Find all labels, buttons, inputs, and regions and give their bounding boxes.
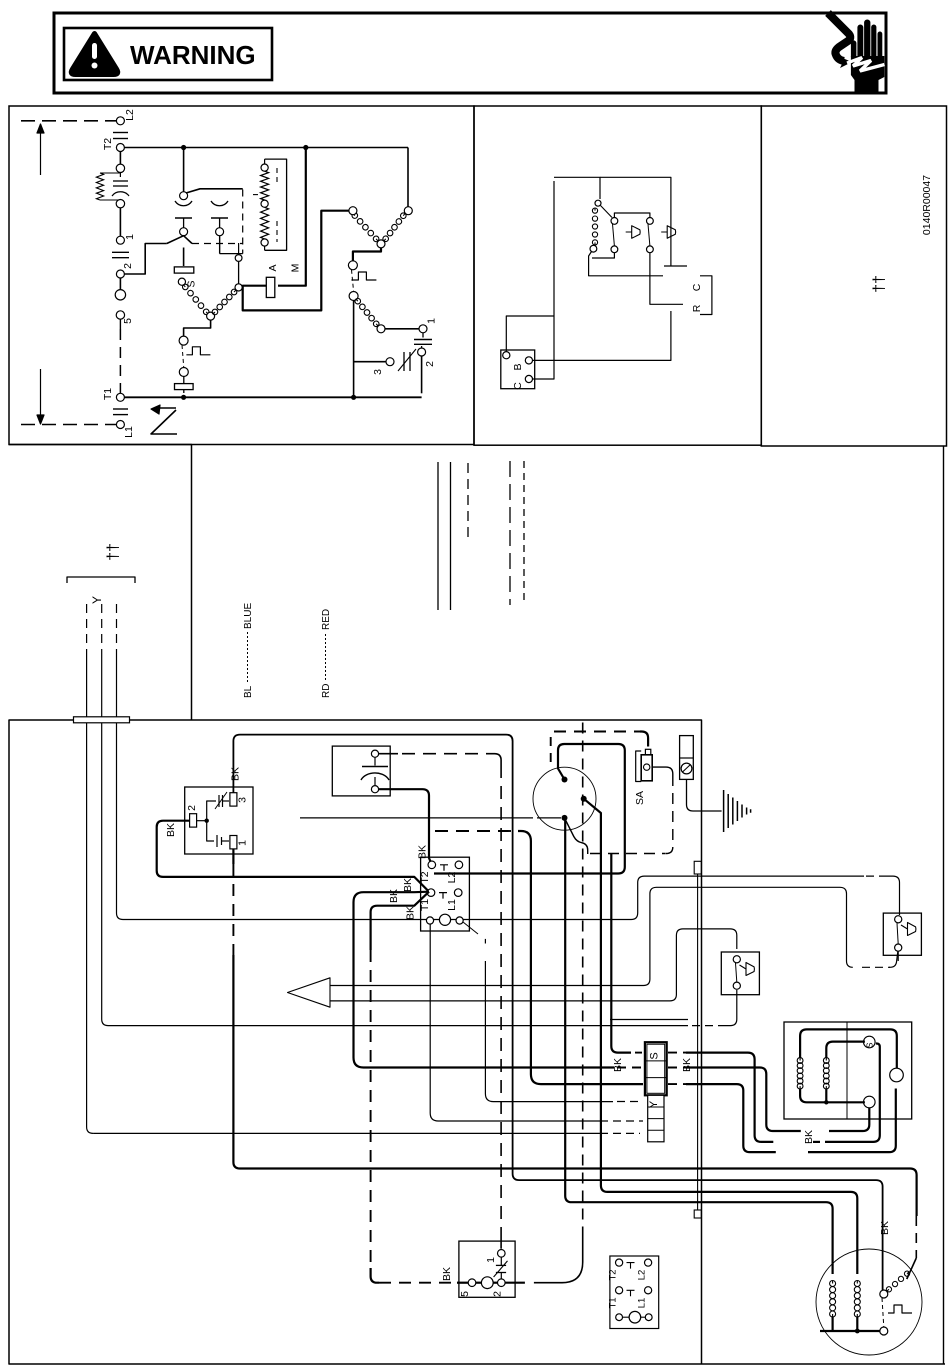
plug feed from rotary dashed vertical bbox=[582, 723, 584, 1237]
L2 dimension arrow up bbox=[37, 124, 44, 175]
pigtail terminal L2 bbox=[645, 1259, 652, 1266]
compressor spiral feed dashed bbox=[915, 1216, 917, 1258]
T2 dashed branch bbox=[435, 830, 518, 832]
contact top right bbox=[647, 218, 654, 225]
heat anticipator coil bbox=[592, 208, 597, 245]
rail terminal 2 to plug circles bbox=[119, 278, 121, 290]
contact arm to bar bbox=[186, 189, 243, 193]
svg-text:5: 5 bbox=[459, 1291, 471, 1297]
svg-text:1: 1 bbox=[237, 840, 249, 846]
pigtail block box bbox=[610, 1256, 659, 1329]
legend line solid 2 bbox=[450, 462, 452, 610]
Y wire 2 dashed bbox=[101, 604, 103, 658]
capacitor plates bbox=[374, 757, 376, 765]
plug center terminal bbox=[481, 1277, 493, 1289]
svg-text:BK: BK bbox=[405, 906, 417, 920]
terminal T1 bbox=[116, 393, 124, 401]
svg-text:T1: T1 bbox=[608, 1297, 619, 1308]
svg-text:BK: BK bbox=[402, 878, 414, 892]
relay terminal 3 wire up to switch feed bbox=[233, 735, 882, 1290]
line-break flash symbol bbox=[151, 408, 177, 434]
relay terminal 2 bbox=[190, 814, 197, 827]
svg-text:SA: SA bbox=[634, 791, 646, 805]
S terminal rect bbox=[174, 267, 194, 273]
electric shock hand icon bbox=[828, 13, 885, 92]
row3 dash at strip right bbox=[668, 1083, 686, 1085]
svg-text:S: S bbox=[865, 1042, 875, 1048]
start terminal 2 bbox=[418, 348, 426, 356]
S branch vertex bbox=[207, 312, 215, 320]
terminal L2 bbox=[116, 117, 124, 125]
contact gap 1-2 bbox=[112, 251, 129, 253]
svg-text:RED: RED bbox=[321, 609, 332, 630]
start winding coil bbox=[354, 297, 380, 328]
L2 feeder dashed wire bbox=[21, 120, 117, 122]
contactor terminal T2 bbox=[428, 861, 436, 869]
mechanical linkage dashed bbox=[192, 243, 243, 245]
start terminal 1 bbox=[419, 325, 427, 333]
mercury switch arm bbox=[601, 206, 613, 218]
svg-text:L2: L2 bbox=[637, 1270, 648, 1281]
run winding coil left bbox=[351, 212, 380, 243]
svg-text:Y: Y bbox=[648, 1100, 660, 1108]
pigtail terminal L1 bbox=[645, 1287, 652, 1294]
coil A wire from M junction bbox=[278, 148, 306, 286]
timer dashed feed to SA fuse bbox=[554, 731, 640, 733]
defrost relay box bbox=[185, 787, 253, 854]
wire vertex to aux protector bbox=[184, 320, 211, 336]
plug row wire bbox=[457, 1282, 468, 1284]
heater dashed linkage bbox=[253, 194, 262, 196]
contactor terminal L1 bbox=[454, 889, 462, 897]
svg-text:T2: T2 bbox=[102, 138, 114, 150]
aux protector circle lower bbox=[179, 368, 188, 377]
svg-text:S: S bbox=[186, 280, 198, 287]
capacitor bottom terminal bbox=[371, 786, 378, 793]
rail overload to contact 1 bbox=[119, 208, 121, 236]
plug terminal 2 bbox=[498, 1279, 506, 1287]
aux protector dashed actuator bbox=[182, 345, 184, 368]
run winding coil right bbox=[382, 212, 407, 243]
contactor plug wire (T1 dashed to compressor plug) bbox=[371, 892, 429, 950]
contactor bottom terminals bbox=[426, 917, 433, 924]
compressor step glyph bbox=[888, 1305, 912, 1313]
svg-text:C: C bbox=[691, 283, 703, 291]
svg-text:L2: L2 bbox=[124, 109, 136, 121]
junction M branch bbox=[303, 145, 308, 150]
terminal strip lower (Y) bbox=[648, 1095, 664, 1142]
contact bottom right bbox=[647, 246, 654, 253]
timer middle contact dot bbox=[581, 796, 587, 802]
pigtail T2 T-bar bbox=[627, 1263, 635, 1269]
row5 wire from contactor bbox=[430, 924, 608, 1121]
LPS bottom terminal bbox=[733, 982, 740, 989]
warning triangle icon bbox=[71, 34, 117, 75]
svg-text:5: 5 bbox=[122, 318, 134, 324]
relay NC contact with slash bbox=[207, 801, 216, 821]
start terminal 3 bbox=[386, 358, 394, 366]
plug terminal 5 bbox=[468, 1279, 476, 1287]
capacitor top dashed wire to strip bbox=[379, 753, 398, 755]
schematic box A frame (line-voltage schematic) bbox=[9, 106, 474, 445]
S strip feed vertical bbox=[610, 854, 612, 1047]
S row dash into strip bbox=[635, 1052, 645, 1054]
Y row dashed into strip bbox=[617, 1101, 643, 1103]
relay junction wire bbox=[197, 820, 207, 822]
plug terminal 1 bbox=[498, 1250, 506, 1258]
terminal strip upper (S) bbox=[645, 1042, 667, 1095]
svg-text:3: 3 bbox=[237, 797, 249, 803]
Y row wire from contactor aux bbox=[484, 939, 486, 944]
run winding left terminal bbox=[349, 207, 357, 215]
legend line solid 1 bbox=[437, 462, 439, 610]
contact right terminal drop bbox=[219, 236, 221, 254]
heater block bottom terminal bbox=[261, 239, 268, 246]
Y wire 1 run to terminal strip bbox=[93, 1132, 608, 1134]
svg-text:L1: L1 bbox=[123, 426, 135, 438]
thermostat top wire bbox=[554, 177, 600, 199]
defrost timer switch circle bbox=[533, 767, 596, 830]
wire terminal3 to protector rail bbox=[354, 361, 386, 363]
compressor start coil spiral bbox=[885, 1270, 910, 1293]
svg-text:BK: BK bbox=[388, 889, 400, 903]
pigtail bottom terminals bbox=[616, 1314, 623, 1321]
S branch top terminal bbox=[178, 278, 185, 285]
thermostat terminal box bbox=[501, 350, 535, 389]
aux protector step glyph bbox=[186, 347, 210, 355]
fan winding bottoms junction bbox=[800, 1089, 865, 1102]
legend line fine-dash bbox=[523, 461, 525, 602]
compressor internal overload (resistor + contact) bbox=[119, 173, 121, 178]
junction T1 protector bbox=[181, 395, 186, 400]
svg-text:BK: BK bbox=[441, 1267, 453, 1281]
S branch coil left bbox=[181, 283, 210, 316]
svg-text:BLUE: BLUE bbox=[243, 603, 254, 629]
relay terminal 1 bbox=[230, 836, 237, 849]
low pressure switch box bbox=[721, 952, 759, 995]
junction contactor coil branch bbox=[181, 145, 186, 150]
heater resistor block top terminal bbox=[261, 164, 268, 171]
protector step glyph bbox=[351, 272, 376, 280]
svg-text:WARNING: WARNING bbox=[130, 40, 256, 70]
svg-text:1: 1 bbox=[485, 1257, 497, 1263]
terminal 2 on rail bbox=[116, 270, 124, 278]
contact bell right bbox=[661, 226, 675, 239]
HPS bottom terminal bbox=[895, 944, 902, 951]
svg-text:BK: BK bbox=[879, 1221, 891, 1235]
wire protector to T1 bus bbox=[353, 301, 355, 398]
Y wire 3 in box bbox=[117, 723, 124, 920]
svg-text:BK: BK bbox=[230, 767, 242, 781]
svg-text:S: S bbox=[649, 1052, 661, 1059]
start capacitor gap bbox=[422, 333, 424, 338]
timer middle arm bbox=[584, 799, 858, 1274]
compressor protector bottom bbox=[880, 1327, 888, 1335]
thermostat field wiring arrow bbox=[288, 978, 331, 1007]
anticipator bottom terminal bbox=[590, 245, 597, 252]
contactor T1 T-bar bbox=[439, 893, 447, 899]
HPS bottom stub bbox=[897, 951, 899, 961]
compressor plug box bbox=[459, 1241, 515, 1297]
contact bell left bbox=[626, 226, 640, 239]
compressor protector actuator bbox=[882, 1298, 884, 1327]
pigtail terminal T2 bbox=[616, 1259, 623, 1266]
wire vertex to protector bbox=[353, 248, 381, 261]
protector bottom terminal bbox=[349, 292, 358, 301]
R C bracket bbox=[700, 276, 712, 315]
fan run capacitor box bbox=[332, 746, 390, 796]
L1 feeder dashed wire bbox=[21, 424, 117, 426]
HPS top terminal bbox=[895, 916, 902, 923]
compressor spiral entry bbox=[907, 1272, 910, 1279]
contact lower terminals bbox=[183, 218, 185, 228]
LPS top terminal bbox=[733, 956, 740, 963]
Y wires dimension bracket bbox=[67, 577, 135, 583]
svg-text:††: †† bbox=[871, 275, 888, 293]
svg-text:2: 2 bbox=[424, 361, 436, 367]
svg-text:BK: BK bbox=[417, 845, 429, 859]
fan winding wire to main circle bbox=[800, 1029, 897, 1068]
warning banner outer box bbox=[54, 13, 886, 93]
middle left box frame bbox=[9, 445, 192, 721]
compressor winding coil 2 bbox=[854, 1281, 860, 1318]
Y wire 2 in box bbox=[102, 723, 688, 1026]
wire junction down to contact arm bbox=[183, 148, 185, 192]
thermostat pivot bbox=[595, 200, 601, 206]
svg-text:1: 1 bbox=[124, 234, 136, 240]
screw terminal circle bbox=[681, 763, 692, 774]
svg-text:B: B bbox=[512, 363, 524, 370]
compressor winding coil 1 bbox=[830, 1281, 836, 1318]
thermostat right vertical bbox=[600, 177, 687, 266]
row2 dash at strip bbox=[617, 1067, 643, 1069]
S row to S-circle U loop bbox=[686, 1053, 773, 1142]
protector dashed actuator bbox=[352, 270, 354, 292]
connector rect bottom bbox=[694, 1210, 701, 1218]
svg-text:3: 3 bbox=[372, 369, 384, 375]
fan motor internal divider wire bbox=[846, 1022, 848, 1119]
svg-text:A: A bbox=[267, 264, 279, 271]
HPS arm bbox=[897, 923, 898, 944]
contact pivot circle bbox=[180, 192, 188, 200]
fan motor box bbox=[784, 1022, 912, 1119]
dashed rail to T1 bbox=[119, 319, 121, 329]
contact top left bbox=[611, 218, 618, 225]
relay wire to T1 bbox=[157, 821, 429, 892]
fan winding coil 1 bbox=[797, 1058, 803, 1089]
warning banner inner box bbox=[64, 28, 272, 80]
svg-text:2: 2 bbox=[186, 805, 198, 811]
svg-text:Y: Y bbox=[90, 596, 104, 604]
relay NO contact bbox=[207, 821, 214, 841]
arrow line top to HPS circuit bbox=[330, 887, 853, 985]
terminal B bbox=[525, 357, 532, 364]
Y terminal bar bbox=[74, 717, 130, 723]
page right border bbox=[943, 446, 945, 1364]
Y wire 2 dashed to LPS bbox=[610, 1019, 688, 1021]
wire coil A to start winding loop bbox=[243, 211, 349, 311]
Y wire 3 dash to HPS bbox=[866, 875, 884, 877]
Y wire 1 in box bbox=[87, 723, 94, 1133]
timer top dot feed bbox=[434, 744, 625, 874]
high pressure switch box bbox=[883, 913, 921, 955]
timer top contact dot bbox=[562, 777, 568, 783]
plug circle big bbox=[115, 290, 125, 300]
legend line long-dash bbox=[509, 461, 511, 605]
wire B to R bracket bbox=[533, 311, 671, 360]
S strip row right dashes bbox=[668, 1052, 686, 1054]
heater resistor upper bbox=[261, 171, 269, 200]
legend line dashed short bbox=[467, 463, 469, 541]
capacitor top terminal bbox=[371, 750, 378, 757]
wire bottom-left contact bbox=[592, 253, 614, 258]
start coil end terminal bbox=[377, 325, 385, 333]
ground wire bbox=[687, 779, 722, 811]
S branch coil right bbox=[211, 288, 238, 316]
svg-text:R: R bbox=[691, 304, 703, 312]
run winding right terminal bbox=[404, 207, 412, 215]
wire to C stub bbox=[589, 271, 663, 276]
contactor T2 T-bar bbox=[440, 865, 448, 871]
wire circuit-2 to contact V bbox=[124, 244, 166, 275]
contact arcs pair bbox=[175, 201, 192, 206]
compressor windings bottom wire bbox=[831, 1317, 833, 1331]
thermostat box terminal top-left bbox=[503, 352, 510, 359]
contact top tie wire bbox=[614, 213, 650, 218]
svg-text:M: M bbox=[290, 264, 302, 273]
svg-text:2: 2 bbox=[492, 1291, 504, 1297]
LPS arm bbox=[736, 963, 737, 982]
run capacitor crossed symbol bbox=[403, 352, 405, 371]
disconnect gap T1-L1 bbox=[113, 408, 128, 410]
overload top terminal bbox=[116, 164, 124, 172]
contact left arm line bbox=[613, 224, 615, 246]
T1 bus wire bbox=[124, 396, 421, 398]
timer bottom arm wire to compressor switch bbox=[565, 818, 833, 1274]
movable contact V bbox=[167, 236, 192, 244]
wire terminal top-left up bbox=[506, 316, 554, 352]
contact right arm line bbox=[648, 224, 650, 246]
svg-text:BK: BK bbox=[612, 1058, 624, 1072]
terminal L1 bbox=[116, 421, 124, 429]
terminal C bbox=[525, 375, 532, 382]
heater resistor lower bbox=[261, 207, 269, 239]
contactor terminal L2 bbox=[455, 861, 463, 869]
rail T2 to overload bbox=[119, 152, 121, 165]
parallel wire along box edge bbox=[697, 874, 699, 1210]
pigtail T1 T-bar bbox=[627, 1290, 635, 1296]
right reference box frame bbox=[761, 106, 946, 446]
wire S right terminal up bbox=[219, 236, 221, 254]
terminal 1 on rail bbox=[116, 236, 124, 244]
arrow line bottom to LPS circuit bbox=[330, 929, 737, 1001]
protector top terminal bbox=[348, 261, 357, 270]
Y wire 1 dashed bbox=[86, 604, 88, 658]
svg-text:BK: BK bbox=[165, 823, 177, 837]
svg-text:T2: T2 bbox=[419, 871, 431, 883]
svg-text:T2: T2 bbox=[608, 1269, 619, 1280]
wire start coil to terminal 1 bbox=[385, 328, 419, 330]
ground symbol bbox=[723, 790, 725, 832]
contactor terminal T1 bbox=[427, 889, 435, 897]
wire contact to S rect bbox=[183, 248, 185, 267]
S branch right terminal bbox=[235, 284, 242, 291]
compressor circle bbox=[816, 1249, 922, 1355]
contact bars bbox=[175, 217, 192, 219]
wire start branch from T2 bus bbox=[407, 148, 409, 207]
schematic box B frame (thermostat schematic) bbox=[474, 106, 761, 445]
fan winding wire to S terminal bbox=[826, 1042, 865, 1058]
wire bottom-right contact to R bbox=[650, 253, 683, 305]
Y wire 3 dashed bbox=[116, 604, 118, 658]
svg-text:2: 2 bbox=[122, 263, 134, 269]
svg-text:RD: RD bbox=[321, 684, 332, 698]
row3 to big-circle U loop bbox=[686, 1084, 776, 1152]
svg-text:BK: BK bbox=[681, 1058, 693, 1072]
Y wire 3 run bbox=[123, 876, 864, 919]
SA fuse holder bbox=[645, 749, 650, 756]
L1 dimension arrow down bbox=[37, 369, 44, 424]
HPS bell contact bbox=[901, 923, 916, 936]
row5 dash into strip bbox=[613, 1120, 643, 1122]
svg-text:0140R00047: 0140R00047 bbox=[921, 175, 933, 235]
svg-text:C: C bbox=[512, 382, 524, 390]
relay terminal 3 bbox=[230, 793, 237, 806]
capacitor bottom wire to T2 bbox=[379, 789, 432, 865]
contact bottom left bbox=[611, 246, 618, 253]
pigtail terminal T1 bbox=[616, 1287, 623, 1294]
fan winding coil 2 bbox=[823, 1058, 829, 1089]
LPS bell contact bbox=[740, 963, 755, 976]
row2 right of strip to fan motor bbox=[668, 1067, 686, 1069]
wire T2 bus to right bbox=[124, 147, 408, 149]
heater block bracket bbox=[265, 159, 287, 250]
overload bottom terminal bbox=[116, 200, 124, 208]
fan bottom terminal circle bbox=[864, 1096, 876, 1108]
winding vertex terminal bbox=[377, 240, 385, 248]
timer bottom arm aux bbox=[565, 818, 588, 854]
heater resistor mid terminal bbox=[261, 200, 268, 207]
SA fuse circle bbox=[644, 764, 650, 770]
wire anticipator down bbox=[589, 252, 592, 272]
aux terminal rect on T1 bus bbox=[175, 384, 194, 390]
svg-text:BL: BL bbox=[243, 685, 254, 698]
contactor bottom right wire diag bbox=[463, 922, 478, 934]
relay terminal 1 wire down bbox=[232, 849, 234, 864]
contactor terminal block box bbox=[421, 857, 470, 931]
svg-text:††: †† bbox=[105, 543, 122, 561]
terminal T2 rail bbox=[116, 144, 124, 152]
timer bottom feed from left bbox=[300, 817, 533, 819]
compressor protector switch top bbox=[880, 1290, 888, 1298]
dashed loop from SA to timer arm bbox=[652, 767, 673, 775]
aux protector circle upper bbox=[179, 336, 188, 345]
terminal 5 on rail bbox=[116, 311, 124, 319]
wire terminal2 down to T1 bus bbox=[421, 356, 423, 393]
fan motor main circle bbox=[890, 1068, 904, 1082]
plug capacitor with arrow bbox=[496, 1264, 506, 1266]
svg-text:L1: L1 bbox=[637, 1298, 648, 1309]
contactor fan wire (T1 left up-down) bbox=[354, 892, 615, 1068]
coil A terminal rect bbox=[266, 277, 275, 297]
svg-text:T1: T1 bbox=[102, 388, 114, 400]
svg-text:L1: L1 bbox=[446, 899, 458, 911]
svg-text:1: 1 bbox=[426, 318, 438, 324]
timer bottom contact dot bbox=[562, 815, 568, 821]
disconnect gap L2-T2 bbox=[113, 132, 128, 134]
fuse holder rect bbox=[680, 736, 694, 780]
fan S terminal circle bbox=[864, 1036, 876, 1048]
